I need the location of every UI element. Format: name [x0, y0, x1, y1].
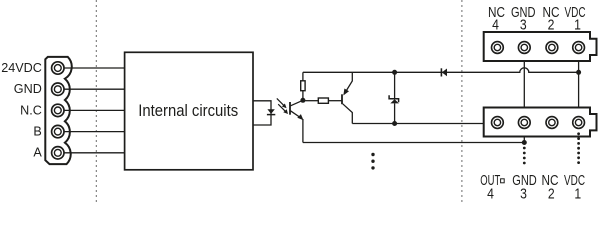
svg-text:GND: GND: [14, 82, 42, 96]
svg-text:2: 2: [548, 187, 555, 203]
svg-text:4: 4: [492, 17, 499, 33]
svg-text:A: A: [33, 146, 42, 160]
svg-text:1: 1: [574, 187, 581, 203]
svg-text:3: 3: [520, 187, 527, 203]
svg-text:1: 1: [574, 17, 581, 33]
svg-text:4: 4: [487, 187, 494, 203]
svg-text:3: 3: [520, 17, 527, 33]
svg-text:2: 2: [548, 17, 555, 33]
svg-text:N.C: N.C: [20, 103, 42, 117]
svg-text:B: B: [33, 125, 41, 139]
svg-text:24VDC: 24VDC: [1, 61, 42, 75]
svg-text:Internal circuits: Internal circuits: [138, 101, 238, 120]
